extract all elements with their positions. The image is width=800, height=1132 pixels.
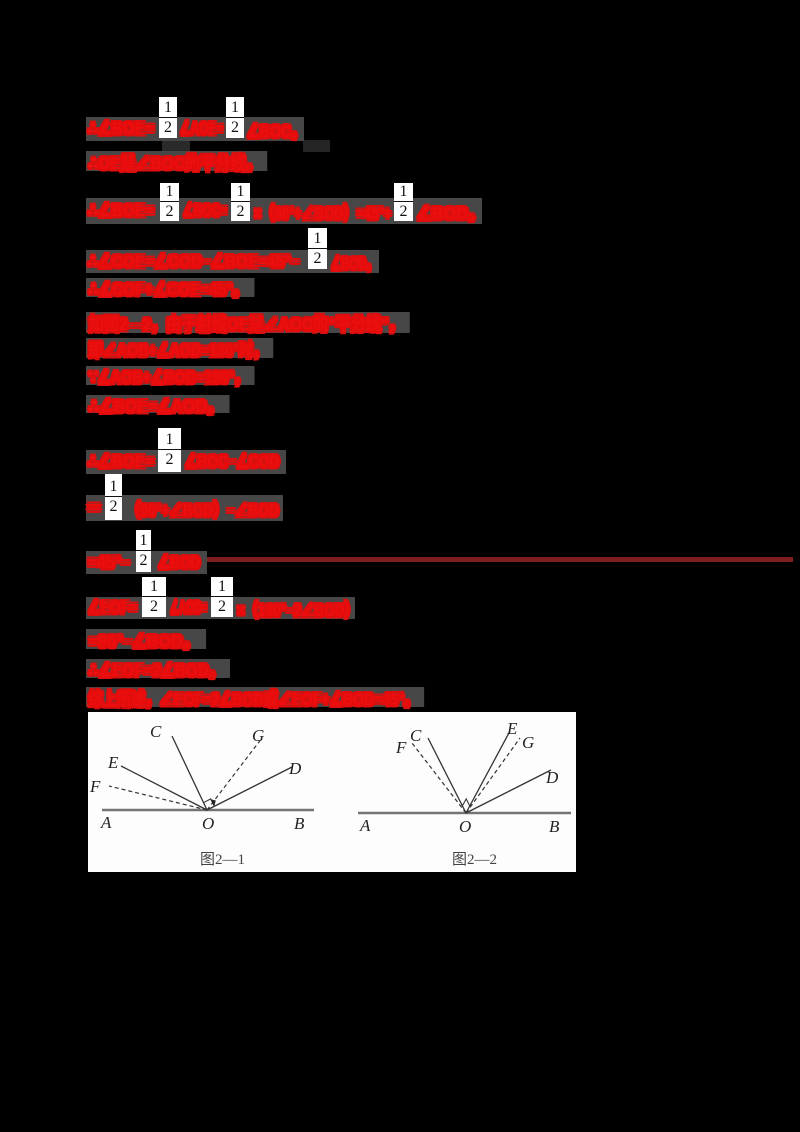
svg-text:C: C	[150, 722, 162, 741]
svg-text:O: O	[459, 817, 471, 836]
svg-text:E: E	[506, 719, 518, 738]
svg-text:O: O	[202, 814, 214, 833]
svg-text:A: A	[359, 816, 371, 835]
svg-text:图2—1: 图2—1	[200, 851, 245, 868]
svg-text:B: B	[294, 814, 305, 833]
svg-text:D: D	[545, 768, 559, 787]
svg-text:D: D	[288, 759, 302, 778]
svg-text:B: B	[549, 817, 560, 836]
svg-text:F: F	[395, 738, 407, 757]
svg-text:G: G	[522, 733, 534, 752]
svg-text:G: G	[252, 726, 264, 745]
svg-text:F: F	[89, 777, 101, 796]
svg-text:E: E	[107, 753, 119, 772]
svg-text:图2—2: 图2—2	[452, 851, 497, 868]
svg-text:A: A	[100, 813, 112, 832]
svg-text:C: C	[410, 726, 422, 745]
